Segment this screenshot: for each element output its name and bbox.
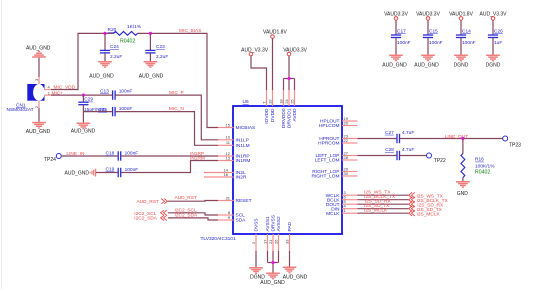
U6 bottom pin numbers (251, 239, 290, 244)
svg-text:17: 17 (263, 239, 268, 244)
svg-text:16: 16 (224, 172, 229, 177)
svg-text:IN1LM: IN1LM (236, 143, 250, 149)
ground GND (below R16) (456, 181, 470, 197)
svg-text:DVSS: DVSS (254, 218, 260, 231)
junction dot mic node (82, 94, 85, 97)
test point TP22 (427, 153, 446, 164)
svg-text:R16: R16 (475, 157, 484, 163)
svg-text:AUD_GND: AUD_GND (260, 280, 285, 286)
microphone CN1 NSM0402AT (27, 84, 44, 101)
svg-text:DRVDD0: DRVDD0 (281, 108, 287, 128)
svg-text:25: 25 (290, 99, 295, 104)
svg-text:C23: C23 (156, 44, 165, 50)
svg-text:IOVDD: IOVDD (264, 108, 270, 124)
junction dot at R20 left / C24 (103, 32, 106, 35)
svg-text:C27: C27 (385, 130, 394, 136)
off-page AUD_RST (137, 199, 168, 206)
sheet border line (1, 0, 3, 289)
svg-text:C18: C18 (106, 151, 115, 157)
svg-text:10: 10 (226, 135, 231, 140)
off-page I2C2_SCL (134, 210, 167, 217)
svg-text:TP22: TP22 (434, 158, 446, 164)
junction dot at R20 right / C23 (149, 32, 152, 35)
svg-text:AVSS1: AVSS1 (265, 216, 271, 231)
wire MIC_BIAS: R20 to pin15 MICBIAS (138, 33, 219, 127)
svg-text:R20: R20 (108, 27, 117, 33)
off-page I2C2_SDA (134, 215, 167, 221)
svg-text:TP23: TP23 (509, 143, 521, 149)
svg-text:100nF: 100nF (119, 106, 133, 112)
svg-text:2.2uF: 2.2uF (156, 54, 168, 60)
svg-text:24: 24 (284, 99, 289, 104)
svg-text:LINE_IN: LINE_IN (66, 151, 85, 157)
capacitor C29 15pF/NP0 (78, 95, 88, 122)
svg-text:LEFT_LOM: LEFT_LOM (315, 158, 340, 164)
mic pin2 stub (38, 101, 40, 108)
svg-text:13: 13 (226, 155, 231, 160)
svg-text:MICBIAS: MICBIAS (236, 125, 256, 131)
ground AUD_GND (below C23) (139, 61, 164, 79)
svg-text:U6: U6 (243, 99, 249, 105)
svg-text:C13: C13 (100, 89, 109, 95)
ground AUD_GND (below C29) (71, 123, 96, 135)
svg-text:HPRCOM: HPRCOM (318, 141, 339, 147)
svg-text:AUD_GND: AUD_GND (65, 170, 90, 176)
ground AUD_GND (below C15) (414, 55, 439, 69)
svg-text:DGND: DGND (454, 62, 469, 68)
svg-text:26: 26 (274, 239, 279, 244)
svg-text:AVSS2: AVSS2 (276, 216, 282, 231)
svg-text:1uF: 1uF (494, 40, 502, 46)
svg-text:I2C2_SCL: I2C2_SCL (175, 207, 197, 213)
svg-text:2.2uF: 2.2uF (110, 54, 122, 60)
ground AUD_GND (below C17) (382, 55, 407, 69)
off-page I2S_SD_RX (409, 201, 444, 208)
svg-text:100nF: 100nF (429, 40, 443, 46)
U6 right pin stubs (342, 121, 358, 213)
svg-text:C25: C25 (98, 107, 107, 113)
power port VAUD1.8V (col C14) (449, 11, 473, 20)
wire VAUD3.3V split to pins 18/24/25 (284, 56, 295, 90)
U6 left pin names (236, 125, 256, 224)
capacitor C23 2.2uF (145, 33, 155, 61)
power port AUD_V3.3V (to IOVDD) (241, 48, 269, 56)
capacitor C26 1uF (488, 20, 498, 54)
resistor R20 1K/1% (105, 32, 138, 36)
mic pin1 stub (45, 94, 52, 96)
svg-text:SDA: SDA (236, 218, 247, 224)
svg-text:RESET: RESET (236, 198, 252, 204)
svg-text:R0402: R0402 (475, 170, 490, 176)
svg-text:C26: C26 (494, 28, 503, 34)
svg-text:AUD_GND: AUD_GND (26, 45, 51, 51)
off-page I2S_WS_TX (409, 192, 444, 199)
svg-text:I2S_MCLK: I2S_MCLK (417, 211, 441, 217)
wire C19 to pin13 IN1RM (121, 161, 218, 173)
test point TP23 (503, 136, 521, 149)
svg-text:IN1LP: IN1LP (236, 137, 249, 143)
capacitor C17 100nF (391, 20, 401, 54)
junction dot LINE_OUT / R16 (461, 137, 464, 140)
capacitor C14 100nF (456, 20, 466, 54)
svg-text:AUD_GND: AUD_GND (283, 275, 308, 281)
svg-text:20: 20 (344, 120, 349, 125)
svg-text:21: 21 (268, 239, 273, 244)
svg-text:VAUD3.3V: VAUD3.3V (283, 48, 307, 54)
wire LINE_IN to C18 (61, 155, 118, 157)
ground AUD_GND (below mic) (26, 122, 51, 135)
ground AUD_GND (below AVSS) (260, 273, 285, 287)
svg-text:4.7uF: 4.7uF (402, 130, 414, 136)
svg-text:I2C2_SDA: I2C2_SDA (134, 216, 157, 222)
svg-text:DRVDD1: DRVDD1 (287, 108, 293, 128)
svg-text:AUD_GND: AUD_GND (26, 129, 51, 135)
svg-text:22: 22 (344, 138, 349, 143)
svg-text:C17: C17 (397, 28, 406, 34)
wire mic pin2 down (38, 108, 40, 122)
wire AUD_GND to C19 (96, 172, 118, 174)
ground DGND (below C14) (454, 55, 469, 69)
ground AUD_GND (below C24) (89, 61, 114, 79)
svg-text:I2S_MCLK: I2S_MCLK (364, 208, 388, 214)
svg-text:DGND: DGND (486, 62, 501, 68)
svg-text:HPLCOM: HPLCOM (319, 123, 340, 129)
U6 left pin stubs (204, 128, 234, 221)
wire AUD_V3.3V to pin7 (251, 56, 267, 90)
power port VAUD3.3V (col C15) (416, 11, 440, 20)
resistor R16 100K/1% (461, 139, 465, 182)
wire MIC_P to pin10 IN1LP (116, 95, 219, 140)
test point TP24 (44, 154, 61, 163)
U6 bottom pin stubs (256, 234, 290, 251)
wire MIC+ from pin1 to junction and C13 (51, 94, 112, 96)
svg-text:AUD_GND: AUD_GND (382, 62, 407, 68)
wire MIC_N to pin11 IN1LM (116, 112, 219, 146)
wire DVSS to DGND (255, 251, 257, 267)
junction dot AVSS (271, 261, 274, 264)
ground AUD_GND (top-left, above mic) (26, 45, 51, 57)
svg-text:33: 33 (285, 239, 290, 244)
svg-text:AUD_RST: AUD_RST (137, 199, 159, 205)
svg-text:LINE_OUT: LINE_OUT (445, 134, 469, 140)
svg-text:IN1RM: IN1RM (236, 158, 251, 164)
U6 top pin stubs (267, 90, 295, 106)
capacitor C18 100nF (118, 151, 121, 160)
capacitor C25 100nF (113, 107, 116, 116)
svg-text:DRVSS: DRVSS (271, 215, 277, 231)
power port AUD_V3.3V (col C26) (480, 11, 508, 20)
wire I2C2_SDA to pin9 SDA (168, 218, 218, 220)
wire I2S_SD_TX from pin4 DIN (358, 208, 409, 210)
wire mic pin3 to ground (38, 58, 40, 77)
U6 top pin names (264, 108, 298, 128)
wire pin23 HPROUT to C27 (358, 138, 397, 140)
capacitor C15 100nF (423, 20, 433, 54)
svg-text:C15: C15 (429, 28, 438, 34)
ground DGND (below C26) (486, 55, 501, 69)
svg-text:MCLK: MCLK (326, 211, 340, 217)
wire MIC_VDD: pin4 right, up to R20 row (51, 33, 105, 89)
capacitor C13 100nF (113, 90, 116, 99)
svg-text:TP24: TP24 (44, 157, 56, 163)
svg-text:R0402: R0402 (120, 39, 135, 45)
wire AVSS1/DRVSS/AVSS2 join (268, 251, 279, 273)
wire AUD_RST to pin31 RESET (168, 200, 218, 203)
wire PAD to ground (289, 251, 291, 267)
capacitor C19 100nF (118, 168, 121, 177)
svg-text:I2C2_SDA: I2C2_SDA (175, 212, 198, 218)
wire I2S_WS_TX from pin3 WCLK (358, 194, 409, 196)
svg-text:VAUD1.8V: VAUD1.8V (263, 30, 287, 36)
U6 right pin names (312, 119, 341, 217)
power port VAUD3.3V (to DRVDD0/DRVDD1/AVDD) (283, 48, 307, 56)
svg-text:100nF: 100nF (397, 40, 411, 46)
power port VAUD3.3V (col C17) (384, 11, 408, 20)
wire LINE_OUT to TP23 (400, 138, 503, 140)
svg-text:31: 31 (226, 195, 231, 200)
svg-text:100nF: 100nF (119, 89, 133, 95)
svg-text:32: 32 (268, 99, 273, 104)
svg-text:C29: C29 (84, 97, 93, 103)
mic pin4 stub (45, 89, 52, 91)
svg-text:C24: C24 (110, 44, 119, 50)
svg-text:AUD_V3.3V: AUD_V3.3V (241, 48, 269, 54)
svg-text:IN1RM: IN1RM (190, 156, 205, 162)
wire I2S_MCLK from pin1 MCLK (358, 212, 409, 214)
svg-text:AUD_RST: AUD_RST (175, 195, 197, 201)
svg-text:1K/1%: 1K/1% (127, 24, 142, 30)
svg-text:100nF: 100nF (462, 40, 476, 46)
svg-text:C19: C19 (106, 166, 115, 172)
IC U6 body TLV320AIC3101 (233, 106, 342, 234)
off-page I2S_SD_TX (409, 206, 443, 213)
wire I2S_SD_RX from pin5 DOUT (358, 203, 409, 205)
svg-text:TLV320AIC3101: TLV320AIC3101 (201, 236, 236, 242)
svg-text:30: 30 (344, 171, 349, 176)
wire I2S_BCLK_TX from pin6 BCLK (358, 199, 409, 201)
U6 left pin numbers (224, 122, 231, 220)
svg-text:IN2R: IN2R (236, 175, 247, 181)
capacitor C27 4.7uF (397, 134, 400, 143)
wire C18 to pin12 IN1RP (121, 155, 218, 157)
svg-text:AUD_GND: AUD_GND (71, 129, 96, 135)
wire gnd branch to C25 (83, 111, 112, 113)
svg-text:MIC_N: MIC_N (169, 106, 184, 112)
mic pin3 stub (38, 77, 40, 84)
power port VAUD1.8V (to DVDD) (263, 30, 287, 39)
ground DGND (below DVSS) (249, 267, 265, 281)
svg-text:AUD_GND: AUD_GND (139, 73, 164, 79)
svg-text:AUD_GND: AUD_GND (414, 62, 439, 68)
svg-text:AUD_GND: AUD_GND (89, 73, 114, 79)
capacitor C28 4.7uF (397, 151, 400, 160)
svg-text:100K/1%: 100K/1% (475, 163, 495, 169)
svg-text:15: 15 (226, 122, 231, 127)
U6 right pin numbers (344, 116, 349, 213)
wire C28 to TP22 (400, 155, 427, 157)
svg-text:4.7uF: 4.7uF (402, 147, 414, 153)
svg-text:MIC_BIAS: MIC_BIAS (179, 28, 201, 34)
off-page I2S_BCLK_TX (409, 197, 449, 204)
wire I2C2_SCL to pin8 SCL (168, 213, 218, 215)
svg-text:C14: C14 (462, 28, 471, 34)
U6 bottom pin names (254, 215, 294, 231)
junction dot VAUD3.3V (287, 77, 290, 80)
U6 top pin numbers (262, 99, 295, 104)
svg-text:AVDD: AVDD (292, 108, 298, 122)
svg-text:RIGHT_LOM: RIGHT_LOM (312, 174, 340, 180)
wire VAUD1.8V to pin32 (272, 38, 274, 90)
off-page I2S_MCLK (409, 210, 441, 217)
svg-text:GND: GND (457, 191, 469, 197)
capacitor C24 2.2uF (100, 33, 110, 61)
svg-text:MIC_P: MIC_P (169, 90, 184, 96)
power symbol AUD_GND (left of C19) (65, 169, 97, 177)
svg-text:DVDD: DVDD (270, 108, 276, 122)
wire pin27 LEFT_LOP to C28 (358, 155, 397, 157)
svg-text:NSM0402AT: NSM0402AT (7, 107, 34, 113)
ground AUD_GND (below PAD) (283, 267, 308, 281)
svg-text:18: 18 (279, 99, 284, 104)
svg-text:PAD: PAD (287, 221, 293, 231)
svg-text:28: 28 (344, 155, 349, 160)
svg-text:C28: C28 (385, 147, 394, 153)
